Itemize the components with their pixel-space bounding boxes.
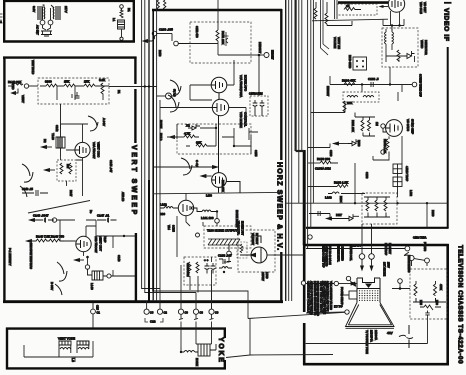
svg-text:V8B ½6CG7: V8B ½6CG7 (94, 236, 98, 253)
grid terminal circles (398, 279, 403, 284)
vert hold input terminal (8, 83, 38, 95)
svg-text:HOLD: HOLD (159, 133, 163, 141)
svg-text:L160: L160 (206, 194, 212, 198)
yoke input terminal (91, 302, 96, 328)
CRT bias dashed box DB13 (410, 269, 447, 319)
svg-text:C143 .25: C143 .25 (22, 187, 33, 191)
wire HV cage to box F (273, 254, 304, 256)
svg-text:1K: 1K (346, 4, 350, 8)
bracket label under plug (145, 318, 163, 322)
svg-text:LEAD: LEAD (265, 272, 268, 279)
svg-text:VERT: VERT (21, 95, 25, 103)
bleeder resistors in DB13 (413, 298, 446, 317)
right area misc labels (326, 86, 439, 305)
svg-text:REPLACEMENT PARTS WITH: REPLACEMENT PARTS WITH (323, 281, 326, 314)
svg-text:HV RECT: HV RECT (255, 233, 259, 245)
svg-text:C150A 50M: C150A 50M (249, 92, 263, 96)
sound takeoff terminal (412, 82, 417, 87)
right B+ thick bus lower (303, 150, 306, 245)
afc waveform traces (168, 80, 181, 112)
svg-text:1M: 1M (66, 164, 70, 169)
svg-text:C152 470: C152 470 (195, 26, 199, 38)
svg-text:1ST ANODE: 1ST ANODE (383, 262, 386, 276)
svg-text:C160A 80M: C160A 80M (315, 167, 331, 171)
svg-text:VIDEO IF: VIDEO IF (443, 8, 450, 41)
svg-text:10K: 10K (347, 101, 352, 105)
yoke plug terminal circles (144, 309, 214, 314)
svg-text:27K: 27K (84, 80, 89, 84)
svg-text:C148: C148 (117, 255, 121, 262)
svg-text:L162: L162 (160, 203, 167, 207)
slanted CRT feed wire (248, 312, 345, 318)
svg-text:C15: C15 (96, 305, 100, 310)
beam bender circle (346, 276, 355, 286)
output coupling coil L146 (88, 269, 136, 280)
video section bottom boundary (306, 227, 449, 229)
svg-text:C160: C160 (329, 150, 333, 157)
resistor R05 470K vertical (414, 281, 437, 302)
svg-text:T140: T140 (51, 133, 55, 140)
svg-text:C13: C13 (150, 320, 156, 324)
horiz disch tube V7C (212, 115, 240, 193)
svg-text:AMP: AMP (103, 236, 107, 243)
svg-text:A 64V: A 64V (102, 118, 106, 126)
svg-text:BRIGHTNESS: BRIGHTNESS (407, 255, 411, 273)
svg-text:SOUND TAKE OFF: SOUND TAKE OFF (419, 74, 423, 97)
svg-text:L1: L1 (112, 18, 116, 22)
svg-text:VERT SWEEP: VERT SWEEP (130, 145, 137, 217)
KV test point (345, 310, 349, 314)
resistor R184 on y84 (344, 83, 355, 86)
diode X4 row (327, 214, 360, 221)
svg-text:HORZ SWEEP & H.V.: HORZ SWEEP & H.V. (276, 162, 283, 251)
svg-text:HEIGHT: HEIGHT (258, 42, 262, 54)
svg-text:VERT YOKE: VERT YOKE (58, 337, 75, 341)
peaking resistor vertical (397, 50, 400, 61)
resistor pair right of bus (355, 113, 375, 137)
sync agc tube V5 (386, 120, 403, 137)
spark gap (399, 325, 413, 348)
grid resistor dashed box (57, 160, 76, 181)
svg-text:R184 47K: R184 47K (342, 79, 355, 83)
C150 electrolytic cluster (250, 96, 268, 116)
box F picture tube section border (303, 244, 449, 365)
cap cluster right of DB6 (219, 259, 232, 273)
svg-text:330: 330 (160, 212, 165, 216)
standoff terminal (196, 233, 200, 237)
vert blocking osc dashed box (38, 78, 109, 104)
cap C147 row right (97, 218, 117, 223)
power transformer T1 winding right (53, 6, 60, 20)
svg-text:R163 1.5K: R163 1.5K (334, 181, 348, 185)
warning text block (307, 281, 332, 316)
svg-text:VIEW CONNECTS: VIEW CONNECTS (325, 246, 328, 267)
resistor R141 (46, 84, 57, 87)
svg-text:4KV: 4KV (387, 331, 393, 335)
scattered component labels box B (11, 60, 121, 262)
ground arrow near T140 (42, 146, 53, 149)
resistor R168 vertical (196, 262, 199, 273)
junction dots DB4 (215, 127, 217, 129)
resistor on IF feed (314, 2, 317, 21)
svg-text:DANGEROUS DISCHARGE TO: DANGEROUS DISCHARGE TO (313, 281, 316, 315)
svg-text:VERT LIN: VERT LIN (337, 37, 341, 49)
thin outline near box F left (154, 291, 249, 299)
svg-text:C155: C155 (254, 150, 258, 157)
long diagonal wire (28, 201, 90, 214)
resistor 4.7K in DB4 (184, 135, 199, 138)
svg-text:R189: R189 (431, 210, 435, 217)
svg-text:WIDTH COIL: WIDTH COIL (349, 246, 352, 261)
vertical wires box D lower (160, 100, 229, 309)
svg-text:4.7K: 4.7K (184, 132, 190, 136)
horz afc tube V7A upper (211, 77, 227, 99)
svg-text:KY PP: KY PP (334, 305, 343, 309)
resistor R product top corner (325, 2, 352, 26)
coils in DB9 (347, 95, 374, 97)
svg-text:SAME RATINGS AND TYPE: SAME RATINGS AND TYPE (326, 281, 329, 312)
svg-text:AER 1B: AER 1B (121, 192, 125, 201)
vert waveform trace left (20, 164, 33, 197)
resistor 68K in DB4 (196, 144, 213, 147)
V7C feed arrow wire (153, 166, 217, 169)
DB3 wires (190, 0, 251, 55)
svg-text:R180A 1.5K: R180A 1.5K (383, 139, 387, 153)
svg-text:T160 HORIZ OUTPUT: T160 HORIZ OUTPUT (207, 229, 237, 233)
svg-text:+ +: + + (204, 258, 209, 262)
svg-text:DETECTOR: DETECTOR (424, 40, 428, 55)
capacitor C143 (22, 190, 48, 196)
svg-text:C9: C9 (215, 311, 219, 315)
box B vert sweep section border (3, 57, 137, 304)
svg-text:R164: R164 (339, 196, 343, 203)
svg-text:R1: R1 (117, 90, 121, 94)
svg-text:HORIZONTAL: HORIZONTAL (337, 246, 340, 263)
box D left border (152, 10, 154, 292)
svg-text:6V AC: 6V AC (173, 89, 177, 97)
electrolytic dashed box DB6 (184, 257, 216, 285)
agc line transistor symbol (321, 0, 330, 55)
svg-text:470K: 470K (439, 284, 443, 290)
yoke vert coil pair (59, 341, 89, 357)
svg-text:R160 200: R160 200 (317, 157, 330, 161)
resistor stubs at top edge (157, 0, 166, 10)
wires tube V8A region (61, 124, 89, 196)
vert out tube V8B (76, 236, 91, 251)
wires right mid (308, 144, 427, 229)
svg-text:C188 .5: C188 .5 (368, 77, 379, 81)
coil L161 right of tube (194, 208, 217, 212)
svg-text:CHASSIS BEFORE SERVICING: CHASSIS BEFORE SERVICING (316, 281, 319, 316)
pilot lamp terminal circles (40, 5, 54, 25)
yoke plug terminal wires (147, 265, 212, 309)
svg-text:Y001 SPECIFIED VALUES: Y001 SPECIFIED VALUES (329, 281, 332, 310)
box D horz section top border (152, 9, 282, 11)
svg-text:4.5MC TRAP: 4.5MC TRAP (405, 166, 409, 182)
6V AC terminal (157, 93, 172, 99)
junction dot below V8B (86, 256, 89, 259)
svg-text:6.3V: 6.3V (32, 6, 36, 12)
coil L160 left of tube (160, 207, 178, 209)
resistor 10K vertical (343, 101, 346, 112)
coil L163 (328, 192, 339, 194)
svg-text:L.S: L.S (71, 358, 75, 362)
cage wires (267, 254, 273, 256)
resistor R145 vertical (60, 163, 63, 174)
svg-text:FOCUS: FOCUS (423, 242, 427, 251)
svg-text:R183: R183 (357, 140, 361, 147)
svg-text:FOCUS STRAP: FOCUS STRAP (340, 287, 343, 305)
video out dashed box DB12 (362, 193, 397, 224)
ground arrow DB4 (170, 136, 185, 139)
HV rect dashed cage DB7 (238, 230, 275, 272)
svg-text:VERT OUT: VERT OUT (99, 236, 103, 251)
svg-text:C145 .047: C145 .047 (109, 160, 113, 173)
vert osc transformer T140 (56, 104, 65, 156)
svg-text:L146: L146 (90, 283, 94, 290)
anode labels (383, 262, 390, 276)
flyback terminal circle (227, 245, 232, 256)
focus terminals (306, 246, 429, 266)
afc discriminator dashed box DB4 (177, 124, 251, 154)
svg-text:C146 .0047: C146 .0047 (33, 214, 49, 218)
long wire y193 horz section (153, 192, 281, 193)
resistor R148 R149 row (27, 239, 65, 243)
svg-text:21DS4A: 21DS4A (374, 330, 378, 340)
svg-text:C 4V: C 4V (195, 160, 199, 167)
margin tick marks (0, 14, 3, 23)
resistor R167 vertical (188, 262, 191, 273)
resistor R143 (84, 84, 95, 87)
svg-text:C147 .01: C147 .01 (97, 214, 110, 218)
svg-text:V7A ½6SN7GTA: V7A ½6SN7GTA (239, 75, 243, 97)
cap C146 row (30, 218, 57, 223)
svg-text:BECAUSE THRU BIAS: BECAUSE THRU BIAS (29, 243, 32, 269)
svg-text:R161 27K: R161 27K (221, 180, 225, 192)
sound takeoff wire y84 (330, 67, 412, 92)
svg-text:CONTROL: CONTROL (244, 112, 248, 127)
4.5mc trap boxes (393, 164, 402, 193)
cap C141 (72, 92, 80, 98)
bottom thick bus wire (box B bottom border continuing east) (3, 300, 283, 303)
video IF divider vertical (447, 47, 449, 228)
svg-text:G2 G4: G2 G4 (352, 244, 361, 248)
svg-text:YOKE: YOKE (217, 337, 224, 364)
flyback winding diagonal hatch (208, 239, 240, 245)
long wire y203 (286, 202, 448, 204)
svg-text:R2: R2 (43, 139, 47, 143)
svg-text:C8: C8 (200, 311, 204, 315)
wire exiting box B at y86 (109, 86, 157, 88)
DB8 wires (386, 44, 415, 62)
phono jack square (353, 57, 367, 70)
svg-text:68K: 68K (196, 141, 201, 145)
svg-text:B+: B+ (89, 210, 93, 214)
svg-text:SYNC: SYNC (11, 82, 15, 90)
svg-text:V9 1B3GT: V9 1B3GT (251, 233, 255, 246)
svg-text:HEIGHT: HEIGHT (271, 50, 274, 60)
left bus wires (142, 0, 196, 301)
svg-text:HORIZ DRIVE: HORIZ DRIVE (235, 210, 239, 228)
focus strap terminal and arrow into gun (306, 281, 356, 285)
svg-text:C100 .005: C100 .005 (159, 28, 173, 32)
sync takeoff wires (311, 92, 402, 164)
focus strap tab (340, 291, 357, 299)
right bus wires (286, 0, 337, 301)
V5 grid terminal (381, 124, 386, 154)
svg-text:C166A 80M: C166A 80M (186, 263, 190, 277)
svg-text:VID DET: VID DET (423, 2, 427, 13)
svg-text:V10 6AL5: V10 6AL5 (419, 2, 423, 14)
svg-text:C2: C2 (164, 311, 168, 315)
resistor R163 (337, 185, 348, 188)
svg-text:C1: C1 (97, 311, 101, 315)
box A top-left power supply box border (3, 0, 135, 42)
wires under V8 (312, 11, 404, 31)
video IF top bar (338, 1, 388, 4)
horz afc tube V7B lower (212, 99, 228, 115)
wires in dashed box (40, 86, 109, 100)
3rd IF amp tube V8 (388, 0, 404, 12)
power transformer T1 winding left (38, 6, 45, 20)
svg-text:CAUTION HIGH VOLTAGE AT: CAUTION HIGH VOLTAGE AT (307, 281, 310, 314)
wire from tube to bus at 236 (96, 235, 135, 276)
ground arrow below grid box (45, 169, 56, 172)
grid feed wires box F (306, 284, 428, 344)
IF plate dashed box DB10 (337, 4, 377, 15)
terminal 2 (172, 34, 190, 46)
horz sweep divider line lower (280, 252, 282, 302)
svg-text:R06: R06 (435, 300, 439, 305)
cathode terminal circle (85, 265, 89, 269)
svg-text:L161 100: L161 100 (201, 216, 214, 220)
wires around V8B (57, 220, 96, 265)
svg-text:15K: 15K (64, 80, 69, 84)
height control pot (251, 53, 269, 97)
plug stubs with break marks (179, 314, 214, 328)
diode D1 in DB4 (188, 124, 200, 130)
resistor R180A (386, 136, 389, 156)
electrolytic caps C166 (205, 263, 216, 274)
svg-text:B 90V: B 90V (50, 282, 54, 290)
svg-text:VOLUME: VOLUME (333, 37, 337, 49)
resistor 1K in DB10 (344, 8, 361, 11)
detector coil pair (385, 29, 394, 44)
yoke left wiring (24, 341, 93, 362)
fuse resistor box A right (118, 5, 125, 41)
svg-text:VERT OSC: VERT OSC (97, 142, 101, 158)
vert osc waveform scope trace upper (88, 116, 98, 131)
svg-text:L182: L182 (409, 190, 413, 196)
svg-text:HORIZ OUT: HORIZ OUT (241, 221, 245, 236)
svg-text:VERT HOLD: VERT HOLD (31, 60, 34, 74)
svg-text:AC INT: AC INT (36, 25, 40, 35)
resistor R144 vertical (101, 83, 104, 94)
svg-text:R181 10K: R181 10K (351, 120, 355, 132)
resistor R142 (64, 84, 75, 87)
svg-text:P-1 LINEARITY: P-1 LINEARITY (8, 248, 11, 266)
svg-text:TELEVISION CHASSIS TS-422A-00: TELEVISION CHASSIS TS-422A-00 (457, 245, 464, 364)
terminal on gap strip (308, 235, 312, 239)
svg-text:V8A ½6CG7: V8A ½6CG7 (92, 142, 96, 159)
svg-text:DET: DET (336, 213, 342, 217)
svg-text:C183: C183 (365, 172, 369, 179)
vert sweep section label (130, 145, 137, 217)
svg-text:C6: C6 (150, 311, 154, 315)
horz osc dashed box DB3 (190, 22, 251, 63)
svg-text:V14: V14 (167, 225, 171, 230)
svg-text:3300: 3300 (45, 80, 52, 84)
svg-text:HORIZ: HORIZ (195, 358, 199, 366)
detector diode (404, 51, 415, 59)
sound takeoff coil dashed box DB9 (343, 92, 379, 102)
cap C151 in DB3 (224, 32, 229, 46)
HV lead labels (261, 272, 268, 281)
svg-text:6.8K: 6.8K (99, 78, 105, 82)
svg-text:V5 6AU8: V5 6AU8 (406, 119, 410, 131)
junction dots on y84 (361, 83, 363, 85)
yoke plug labels (97, 311, 219, 315)
resistor R146 vertical (69, 163, 72, 174)
HV rect tube V9 (240, 236, 267, 263)
svg-text:VIDEO: VIDEO (420, 40, 424, 48)
svg-text:R147: R147 (69, 190, 73, 197)
CRT gun body (357, 278, 380, 303)
diode X3 (334, 139, 361, 146)
interlock plug P1 (41, 25, 52, 36)
cap near bus y207 (309, 211, 330, 219)
svg-text:R05: R05 (419, 300, 423, 305)
svg-text:B1: B1 (127, 8, 131, 12)
resistor R151 vertical in DB3 (216, 30, 219, 41)
svg-text:ANODE OF PICTURE TUBE IS: ANODE OF PICTURE TUBE IS (310, 281, 313, 315)
kine socket note text (322, 246, 331, 268)
svg-text:C142: C142 (55, 125, 59, 132)
svg-text:MOD GRID: MOD GRID (348, 55, 352, 68)
svg-text:C9: C9 (185, 311, 189, 315)
svg-text:PIN NO 10 BASE: PIN NO 10 BASE (328, 246, 331, 265)
svg-text:R150: R150 (158, 50, 162, 57)
flyback transformer dashed box DB5 (204, 226, 251, 248)
box D misc labels (158, 26, 258, 232)
cap C188 on y84 (371, 82, 373, 87)
svg-text:117V: 117V (64, 6, 68, 13)
afc input wires (160, 60, 246, 124)
sync input terminal C100 (143, 31, 172, 42)
video detector dashed box DB8 (382, 28, 418, 67)
anode wire bottom (226, 319, 333, 358)
svg-text:THE SET USE ONLY EXACT: THE SET USE ONLY EXACT (319, 281, 322, 313)
gun grid dots (359, 290, 378, 301)
svg-text:CENTERING: CENTERING (341, 246, 344, 261)
DB4 internal wires (186, 124, 258, 154)
svg-text:X2: X2 (186, 124, 190, 128)
yoke box border (6, 328, 226, 370)
svg-text:V7B HORIZ: V7B HORIZ (239, 112, 243, 128)
svg-text:KINE SOCKET TOP: KINE SOCKET TOP (322, 246, 325, 268)
V7C ground arrow (201, 175, 212, 178)
CRT gun terminals (359, 224, 374, 270)
CRT bell (346, 303, 395, 329)
svg-text:250V: 250V (387, 262, 390, 268)
svg-text:HORIZ: HORIZ (159, 120, 163, 129)
vert osc tube V8A (75, 142, 90, 157)
svg-text:HORIZ AFC: HORIZ AFC (244, 75, 248, 92)
standoff terminal on box F border (301, 281, 305, 285)
ground arrow V8B cathode (75, 259, 85, 262)
tube V14 labels (237, 221, 245, 236)
svg-text:SYNC SEP: SYNC SEP (411, 119, 415, 134)
